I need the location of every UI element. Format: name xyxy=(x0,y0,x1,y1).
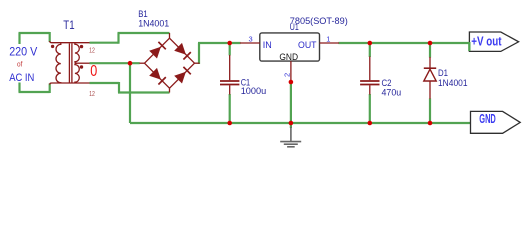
wire: D1 bottom branch xyxy=(429,99,431,124)
T1 primary phase dot xyxy=(51,45,54,48)
svg-text:T1: T1 xyxy=(63,20,74,32)
D1 triangle xyxy=(424,69,436,81)
wire: C1 top branch xyxy=(229,43,231,55)
U1 pin 3 (IN) lead xyxy=(240,42,260,44)
svg-text:1000u: 1000u xyxy=(241,86,267,97)
wire: bottom AC wire to bridge bottom xyxy=(118,91,170,93)
C1 bottom plate xyxy=(220,84,239,86)
T1 secondary top winding xyxy=(75,43,79,64)
wire: AC source loop bottom horizontal xyxy=(19,91,50,93)
C1 bottom lead xyxy=(229,85,231,94)
B1 pin stub top xyxy=(169,33,171,38)
ground bar 2 xyxy=(284,143,298,145)
B1 diamond edge bottom-right xyxy=(170,63,195,88)
wire: center tap to junction and bridge left xyxy=(90,62,140,64)
+V out terminal flag xyxy=(469,32,518,51)
regulator U1 box xyxy=(260,33,320,61)
svg-text:2: 2 xyxy=(282,73,291,77)
D1 cathode bar xyxy=(424,67,436,69)
wire: bridge right output up to +V rail xyxy=(198,43,200,64)
T1 secondary bottom phase dot xyxy=(80,65,83,68)
wire: +V rail from regulator pin 1 to +V out flag xyxy=(339,42,470,44)
T1 core line right xyxy=(71,44,73,84)
D1 bottom lead xyxy=(429,81,431,99)
wire: AC source loop left vertical top segment xyxy=(18,33,20,44)
wire: regulator GND pin to ground rail xyxy=(290,82,292,123)
capacitor C2 xyxy=(360,57,379,95)
U1 pin 1 (OUT) lead xyxy=(320,42,340,44)
wire: from transformer primary bottom pin xyxy=(49,84,51,94)
T1 center tap lead xyxy=(77,62,90,64)
junction dot D1 top xyxy=(428,41,433,46)
junction dot C1 bottom xyxy=(227,121,232,126)
wire: ground symbol stub green part xyxy=(290,123,292,128)
ground bar 3 xyxy=(287,146,295,148)
C1 top lead xyxy=(229,55,231,80)
B1 pin stub bottom xyxy=(169,88,171,92)
svg-text:OUT: OUT xyxy=(298,40,317,51)
wire: stub on +V out flag left edge xyxy=(468,42,470,51)
svg-text:3: 3 xyxy=(249,35,253,44)
T1 core line left xyxy=(68,44,70,84)
junction dot regulator pin 2 xyxy=(289,80,294,85)
wire: C2 top branch xyxy=(369,43,371,57)
wire: top AC wire to bridge top xyxy=(118,32,170,34)
T1 primary top lead xyxy=(50,41,90,43)
wire: C1 bottom branch xyxy=(229,94,231,123)
wire: secondary top pin to step xyxy=(90,42,119,44)
B1 diamond edge top-right xyxy=(170,38,195,63)
B1 diamond edge bottom-left xyxy=(145,63,170,88)
B1 pin stub left xyxy=(140,62,145,64)
wire: junction down to ground rail xyxy=(129,63,131,123)
wire: AC source loop top horizontal xyxy=(19,32,50,34)
svg-text:GND: GND xyxy=(479,112,496,126)
C2 bottom plate xyxy=(360,84,379,86)
svg-text:AC IN: AC IN xyxy=(9,72,34,84)
junction dot D1 bottom xyxy=(428,121,433,126)
ground bar 1 xyxy=(280,141,301,143)
diode D1 xyxy=(424,57,436,99)
B1 pin stub right xyxy=(195,62,200,64)
svg-text:+V out: +V out xyxy=(471,34,502,48)
T1 primary winding xyxy=(56,43,61,83)
svg-text:1N4001: 1N4001 xyxy=(138,18,169,29)
C2 top plate xyxy=(360,80,379,82)
T1 primary bottom lead xyxy=(50,83,90,85)
capacitor C1 xyxy=(220,55,239,95)
+V out flag green edge overlay xyxy=(468,42,470,51)
junction dot at center tap xyxy=(128,61,133,66)
GND terminal flag xyxy=(471,111,521,133)
C1 top plate xyxy=(220,80,239,82)
wire: secondary bottom pin to step xyxy=(90,82,120,84)
transformer T1 xyxy=(50,41,90,85)
svg-text:12: 12 xyxy=(89,48,95,55)
svg-text:470u: 470u xyxy=(382,87,402,98)
wire: AC source loop left vertical bottom segment xyxy=(18,83,20,93)
D1 top lead xyxy=(429,57,431,68)
junction dot ground rail center xyxy=(289,121,294,126)
U1 pin 2 (GND) lead xyxy=(290,61,292,82)
C2 bottom lead xyxy=(369,85,371,94)
svg-text:1N4001: 1N4001 xyxy=(438,78,468,89)
wire: +V rail from bridge to regulator pin 3 xyxy=(198,42,241,44)
wire: ground rail xyxy=(130,122,471,124)
B1 diamond edge top-left xyxy=(145,38,170,63)
wire: D1 top branch xyxy=(429,43,431,58)
svg-text:0: 0 xyxy=(90,63,97,80)
C2 top lead xyxy=(369,57,371,81)
B1 diode bottom-left (anode left vertex, cathode bottom) xyxy=(149,68,161,80)
B1 diode bottom-right (anode bottom vertex, cathode right) xyxy=(174,72,186,84)
svg-text:of: of xyxy=(17,61,22,68)
ground stub xyxy=(290,127,292,141)
junction dot C2 top xyxy=(368,41,373,46)
svg-text:GND: GND xyxy=(279,52,298,63)
svg-text:1: 1 xyxy=(326,35,330,44)
B1 diode top-right (anode top vertex, cathode right) xyxy=(174,43,186,55)
T1 secondary top phase dot xyxy=(80,45,83,48)
wire: step down at x=119 xyxy=(118,82,120,93)
wire: step up at x=118.5 xyxy=(117,33,119,44)
B1 diode top-left (anode left vertex, cathode top) xyxy=(149,47,161,59)
svg-text:220 V: 220 V xyxy=(9,47,37,59)
wire: to transformer primary top pin xyxy=(49,32,51,42)
bridge rectifier B1 xyxy=(140,33,200,93)
junction dot C2 bottom xyxy=(368,121,373,126)
T1 secondary bottom winding xyxy=(75,63,79,83)
svg-text:12: 12 xyxy=(89,91,95,98)
junction dot C1 top xyxy=(227,41,232,46)
ground symbol below regulator xyxy=(280,127,301,147)
svg-text:IN: IN xyxy=(263,40,272,51)
svg-text:U1: U1 xyxy=(290,22,299,33)
wire: C2 bottom branch xyxy=(369,94,371,123)
